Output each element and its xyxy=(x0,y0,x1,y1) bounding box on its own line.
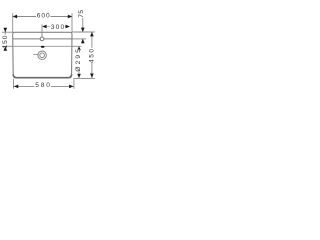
svg-text:Ø295: Ø295 xyxy=(75,47,82,72)
svg-text:580: 580 xyxy=(35,82,51,89)
svg-text:300: 300 xyxy=(51,24,65,31)
svg-text:600: 600 xyxy=(37,12,51,19)
svg-text:75: 75 xyxy=(78,9,85,17)
svg-text:150: 150 xyxy=(2,35,9,49)
svg-text:450: 450 xyxy=(88,47,95,63)
